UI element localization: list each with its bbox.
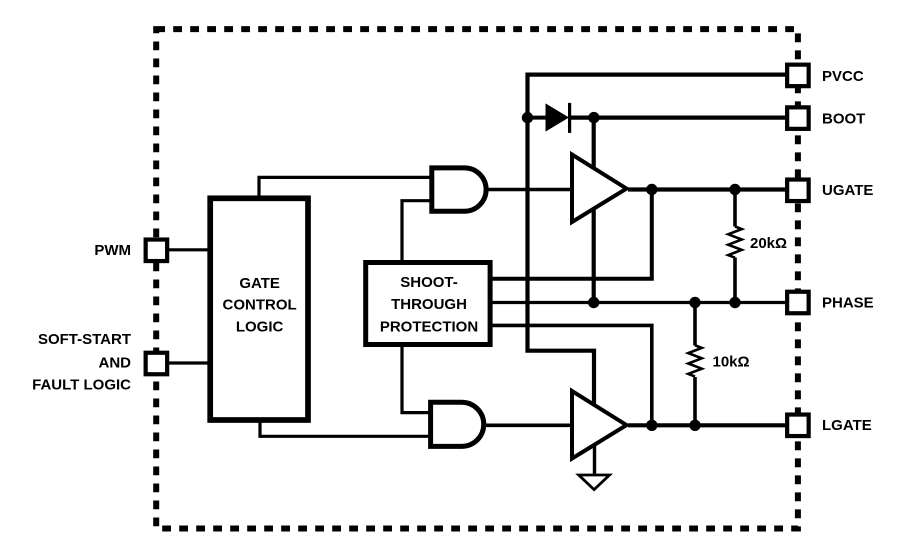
pin square SOFT-START [146, 353, 168, 375]
wire shoot-through protection to upper AND input B [402, 201, 433, 263]
wire BOOT net diode anode stub [528, 116, 548, 120]
wire soft-start pin to gate control logic [165, 361, 211, 364]
junction dot LGATE / feedback [646, 420, 657, 431]
ground symbol [579, 475, 610, 490]
wire upper AND output to upper driver input [485, 188, 573, 192]
svg-text:PHASE: PHASE [822, 294, 874, 311]
wire PWM pin to gate control logic [165, 248, 211, 251]
svg-text:PVCC: PVCC [822, 68, 864, 85]
svg-text:PWM: PWM [94, 242, 131, 259]
upper AND gate [432, 168, 486, 211]
pin square PHASE [787, 292, 809, 314]
svg-text:CONTROL: CONTROL [223, 297, 297, 314]
wire lower driver to ground [593, 440, 596, 474]
resistor 20kohm zigzag [728, 227, 742, 258]
wire 20k resistor lower lead [733, 258, 737, 303]
lower driver buffer [572, 391, 627, 459]
pin square BOOT [787, 107, 809, 129]
resistor 10kohm zigzag [688, 345, 702, 376]
junction dot PHASE / 10k resistor [689, 297, 700, 308]
svg-text:LGATE: LGATE [822, 417, 872, 434]
junction dot UGATE / feedback [646, 184, 657, 195]
wire 10k resistor upper lead [693, 303, 697, 346]
junction dot PVCC rail / diode anode [522, 112, 533, 123]
junction dot PHASE / 20k resistor [729, 297, 740, 308]
junction dot UGATE / 20k resistor [729, 184, 740, 195]
svg-text:GATE: GATE [239, 275, 280, 292]
wire gate control logic to lower AND input B [260, 418, 432, 436]
diode cathode bar [568, 103, 571, 133]
junction dot LGATE / 10k resistor [689, 420, 700, 431]
wire lower AND output to lower driver input [482, 423, 573, 427]
wire BOOT net cathode to BOOT pin [570, 115, 790, 119]
pin square LGATE [787, 415, 809, 437]
wire PVCC pin to internal rail and lower driver supply [528, 75, 791, 406]
svg-text:THROUGH: THROUGH [391, 296, 467, 313]
svg-text:BOOT: BOOT [822, 110, 865, 127]
wire 10k resistor lower lead [693, 377, 697, 425]
wire PHASE net [490, 301, 790, 304]
junction dot PHASE / upper driver return [588, 297, 599, 308]
svg-text:AND: AND [99, 355, 132, 372]
wire LGATE feedback to shoot-through protection [490, 325, 652, 425]
wire upper driver return to PHASE [592, 210, 596, 303]
upper driver buffer [572, 155, 627, 223]
svg-text:10kΩ: 10kΩ [713, 354, 750, 371]
svg-text:20kΩ: 20kΩ [750, 235, 787, 252]
svg-text:UGATE: UGATE [822, 182, 873, 199]
shoot-through protection box [366, 263, 490, 345]
wire BOOT to upper driver supply [592, 118, 596, 170]
junction dot BOOT / upper driver supply [588, 112, 599, 123]
svg-text:LOGIC: LOGIC [236, 319, 284, 336]
pin square PVCC [787, 65, 809, 87]
wire gate control logic to upper AND input A [259, 177, 433, 200]
svg-text:SHOOT-: SHOOT- [400, 274, 458, 291]
IC boundary dashed border [156, 29, 798, 528]
wire UGATE net driver output to UGATE pin [628, 187, 790, 191]
pin square UGATE [787, 180, 809, 202]
wire shoot-through protection to lower AND input A [402, 343, 432, 413]
wire 20k resistor upper lead [733, 190, 737, 227]
gate control logic box [210, 198, 308, 420]
wire UGATE feedback to shoot-through protection [490, 190, 652, 279]
svg-text:PROTECTION: PROTECTION [380, 319, 478, 336]
svg-text:SOFT-START: SOFT-START [38, 331, 131, 348]
pin square PWM [146, 240, 168, 261]
lower AND gate [431, 402, 484, 446]
svg-text:FAULT LOGIC: FAULT LOGIC [32, 376, 131, 393]
wire LGATE net driver output to LGATE pin [628, 423, 790, 427]
diode anode triangle [546, 104, 568, 130]
